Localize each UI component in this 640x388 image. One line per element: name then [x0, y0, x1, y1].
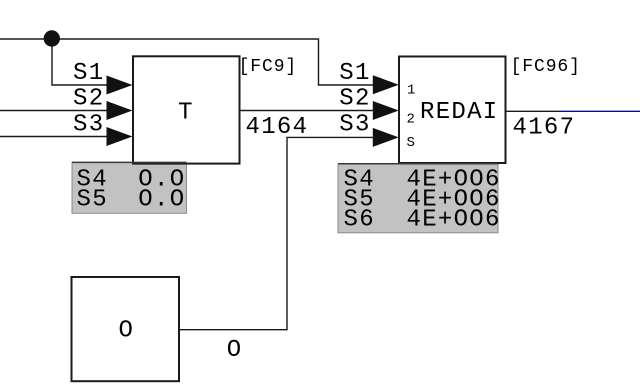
svg-text:O: O [227, 337, 243, 364]
svg-text:4E+OO6: 4E+OO6 [407, 207, 501, 234]
svg-text:S2: S2 [73, 85, 104, 112]
svg-text:S2: S2 [339, 85, 370, 112]
svg-text:[FC9]: [FC9] [239, 57, 298, 77]
svg-text:REDAI: REDAI [420, 99, 499, 126]
svg-text:O.O: O.O [138, 187, 185, 214]
svg-text:S3: S3 [339, 112, 370, 139]
svg-text:S1: S1 [73, 60, 104, 87]
svg-text:S6: S6 [344, 207, 375, 234]
svg-text:S5: S5 [77, 187, 108, 214]
svg-text:2: 2 [407, 111, 415, 127]
svg-text:S3: S3 [73, 111, 104, 138]
svg-text:S: S [407, 135, 415, 151]
svg-text:T: T [178, 99, 194, 126]
svg-text:1: 1 [407, 82, 415, 98]
svg-text:4164: 4164 [246, 114, 309, 141]
svg-text:S1: S1 [339, 60, 370, 87]
svg-text:[FC96]: [FC96] [511, 57, 581, 77]
svg-text:4167: 4167 [513, 114, 576, 141]
svg-text:O: O [118, 317, 134, 344]
